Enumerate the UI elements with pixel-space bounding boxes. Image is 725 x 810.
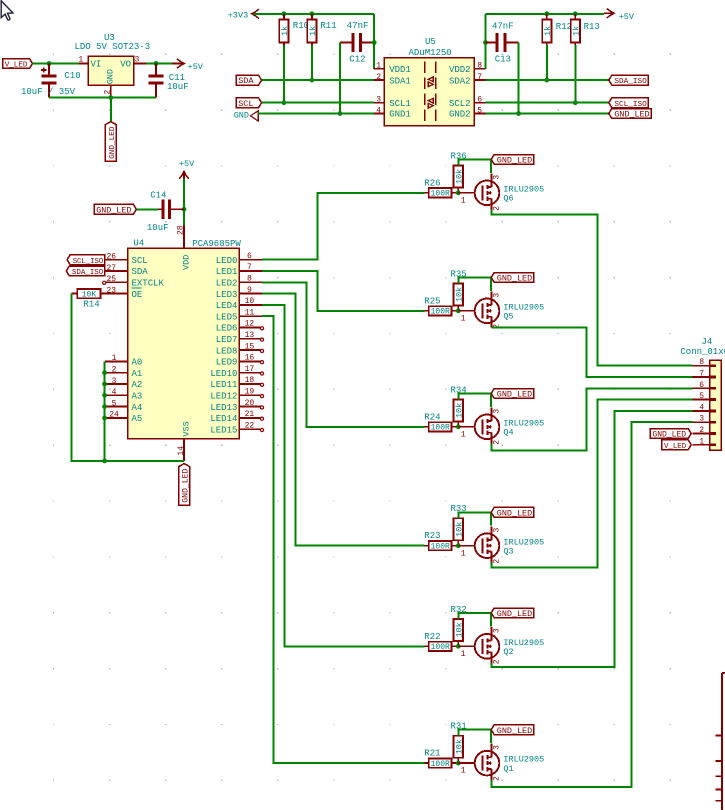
wire <box>458 613 491 626</box>
svg-text:LED11: LED11 <box>210 380 237 390</box>
wire <box>458 512 491 525</box>
junction <box>102 393 107 398</box>
pin 23 OE <box>105 286 142 299</box>
wire <box>262 316 424 763</box>
svg-text:5: 5 <box>699 392 704 401</box>
svg-text:2: 2 <box>492 559 501 564</box>
regulator U3 <box>75 33 151 98</box>
resistor R33 <box>451 504 467 544</box>
svg-text:SCL: SCL <box>238 99 253 109</box>
svg-text:SDA: SDA <box>132 267 149 277</box>
wire <box>33 63 80 65</box>
svg-text:+5V: +5V <box>619 12 635 22</box>
svg-text:24: 24 <box>109 411 119 420</box>
svg-text:SDA2: SDA2 <box>449 76 471 86</box>
svg-text:1: 1 <box>461 767 466 776</box>
svg-text:8: 8 <box>699 358 704 367</box>
wire <box>486 113 609 115</box>
svg-text:100R: 100R <box>431 308 450 317</box>
svg-text:R21: R21 <box>424 749 440 759</box>
svg-text:R12: R12 <box>556 22 572 32</box>
svg-text:14: 14 <box>177 446 186 456</box>
svg-text:3: 3 <box>492 409 501 414</box>
wire <box>262 305 424 646</box>
svg-text:LED5: LED5 <box>216 312 238 322</box>
junction <box>573 11 578 16</box>
wire <box>254 13 375 15</box>
svg-text:100R: 100R <box>431 643 450 652</box>
svg-text:28: 28 <box>176 225 185 235</box>
wire <box>183 179 185 226</box>
junction <box>544 11 549 16</box>
global label GND_LED <box>491 155 534 166</box>
svg-text:2: 2 <box>492 206 501 211</box>
capacitor C11 <box>148 64 188 98</box>
svg-text:10uF: 10uF <box>147 223 169 233</box>
svg-text:LED10: LED10 <box>210 369 237 379</box>
resistor R26 <box>424 178 458 198</box>
junction <box>108 95 113 100</box>
svg-text:3: 3 <box>492 745 501 750</box>
svg-text:GND_LED: GND_LED <box>652 431 686 440</box>
resistor R32 <box>451 605 467 645</box>
svg-text:3: 3 <box>699 415 704 424</box>
junction <box>372 40 377 45</box>
power +3V3 <box>228 9 259 20</box>
svg-text:5: 5 <box>112 399 117 408</box>
wire <box>262 294 424 546</box>
svg-text:SDA: SDA <box>238 76 254 86</box>
connector J4 <box>680 337 725 451</box>
pin 25 EXTCLK <box>103 275 165 288</box>
junction <box>516 111 521 116</box>
svg-text:SCL: SCL <box>132 256 148 266</box>
pin 3 <box>692 415 716 424</box>
svg-text:3: 3 <box>492 528 501 533</box>
svg-text:Q4: Q4 <box>503 428 513 438</box>
global label GND_LED <box>650 429 691 440</box>
svg-text:3: 3 <box>376 96 381 105</box>
mouse cursor <box>1 1 13 20</box>
wire <box>491 422 692 787</box>
wire <box>262 79 375 81</box>
svg-text:A4: A4 <box>132 403 143 413</box>
svg-text:2: 2 <box>699 426 704 435</box>
svg-text:J4: J4 <box>702 337 713 347</box>
svg-text:2: 2 <box>492 659 501 664</box>
svg-text:100R: 100R <box>431 424 450 433</box>
global label GND_LED <box>609 109 651 120</box>
resistor R12 <box>542 14 572 45</box>
svg-text:LED4: LED4 <box>216 301 238 311</box>
junction <box>544 78 549 83</box>
svg-text:10k: 10k <box>454 739 464 754</box>
svg-text:VSS: VSS <box>182 421 192 436</box>
pin 6 LED0 <box>216 252 262 266</box>
resistor R21 <box>424 749 458 769</box>
pin 1 A0 <box>105 354 142 367</box>
junction <box>573 100 578 105</box>
svg-text:3: 3 <box>112 377 117 386</box>
svg-text:GND_LED: GND_LED <box>109 126 117 159</box>
global label SCL_ISO <box>67 255 105 266</box>
pin 11 LED5 <box>216 308 262 322</box>
svg-text:2: 2 <box>376 73 381 82</box>
isolator U5 <box>374 37 485 126</box>
svg-text:1: 1 <box>376 62 381 71</box>
resistor R14 <box>71 289 105 310</box>
svg-text:GND_LED: GND_LED <box>497 274 532 284</box>
svg-text:R26: R26 <box>424 178 440 188</box>
wire <box>546 45 548 80</box>
pin 22 LED15 <box>210 421 263 435</box>
svg-text:6: 6 <box>699 381 704 390</box>
wire <box>518 43 520 114</box>
wire <box>486 79 609 81</box>
svg-text:C10: C10 <box>64 71 80 81</box>
svg-text:A1: A1 <box>132 369 143 379</box>
global label V_LED <box>3 59 33 70</box>
transistor Q4 <box>458 407 544 444</box>
svg-text:OE: OE <box>132 290 143 300</box>
junction <box>102 459 107 464</box>
pin 12 LED6 <box>216 320 264 334</box>
svg-text:27: 27 <box>106 264 116 273</box>
svg-text:10k: 10k <box>454 169 464 184</box>
pin 9 LED3 <box>216 286 262 300</box>
wire <box>262 102 375 104</box>
wire <box>49 97 156 99</box>
svg-text:U5: U5 <box>425 37 436 47</box>
svg-text:VDD: VDD <box>182 255 192 270</box>
svg-text:VDD2: VDD2 <box>449 65 471 75</box>
global label SDA_ISO <box>66 266 105 277</box>
pin 20 LED13 <box>210 399 263 413</box>
svg-text:Q1: Q1 <box>503 764 513 774</box>
svg-text:GND1: GND1 <box>389 110 411 120</box>
wire <box>458 393 491 406</box>
junction <box>483 40 488 45</box>
svg-text:VO: VO <box>120 60 131 70</box>
svg-text:8: 8 <box>477 62 482 71</box>
svg-text:47nF: 47nF <box>492 22 514 32</box>
svg-text:2: 2 <box>492 776 501 781</box>
junction <box>47 61 52 66</box>
svg-text:1: 1 <box>699 437 704 446</box>
svg-text:2: 2 <box>112 366 117 375</box>
connector (partial, right edge) <box>716 673 725 810</box>
svg-text:LED3: LED3 <box>216 290 238 300</box>
svg-text:EXTCLK: EXTCLK <box>132 279 165 289</box>
junction <box>456 190 461 195</box>
svg-text:4: 4 <box>699 403 704 412</box>
wire <box>491 411 692 667</box>
pin 7 LED1 <box>216 263 262 277</box>
svg-text:Conn_01x08: Conn_01x08 <box>680 347 725 357</box>
pin 18 LED11 <box>210 376 263 390</box>
svg-text:LED6: LED6 <box>216 324 238 334</box>
svg-text:SCL_ISO: SCL_ISO <box>73 258 104 266</box>
global label GND_LED <box>491 273 534 284</box>
power +5V <box>604 9 635 22</box>
pin 27 SDA <box>105 264 148 277</box>
junction <box>282 100 287 105</box>
svg-text:7: 7 <box>699 370 704 379</box>
svg-text:23: 23 <box>106 286 116 295</box>
svg-text:LED8: LED8 <box>216 346 238 356</box>
junction <box>456 644 461 649</box>
ic U4 <box>103 225 264 461</box>
svg-text:1: 1 <box>112 354 117 363</box>
svg-text:VDD1: VDD1 <box>389 65 411 75</box>
global label GND_LED <box>105 122 117 161</box>
pin 5 A4 <box>105 399 142 412</box>
wire <box>486 102 609 104</box>
svg-text:R14: R14 <box>83 300 99 310</box>
wire <box>262 193 424 260</box>
pin 1 <box>692 437 716 446</box>
svg-text:LED0: LED0 <box>216 256 238 266</box>
wire <box>458 730 491 743</box>
svg-text:10uF: 10uF <box>167 82 189 92</box>
svg-text:4: 4 <box>112 388 117 397</box>
wire <box>104 361 106 461</box>
svg-text:SCL1: SCL1 <box>389 99 411 109</box>
svg-text:GND_LED: GND_LED <box>497 390 532 400</box>
svg-text:1: 1 <box>461 549 466 558</box>
junction <box>182 207 187 212</box>
svg-text:10uF / 35V: 10uF / 35V <box>21 87 76 97</box>
svg-text:5: 5 <box>477 106 482 115</box>
pin 6 <box>692 381 716 390</box>
svg-text:A2: A2 <box>132 380 143 390</box>
wire <box>339 43 341 114</box>
svg-text:V_LED: V_LED <box>664 443 687 451</box>
svg-text:10k: 10k <box>454 622 464 637</box>
wire <box>491 210 692 366</box>
svg-text:+5V: +5V <box>188 62 204 72</box>
junction <box>102 382 107 387</box>
wire <box>283 45 285 103</box>
pin 24 A5 <box>105 411 142 424</box>
svg-text:VI: VI <box>91 60 102 70</box>
junction <box>456 424 461 429</box>
svg-text:C14: C14 <box>150 191 166 201</box>
svg-text:PCA9685PW: PCA9685PW <box>192 239 241 249</box>
wire <box>458 277 491 290</box>
svg-text:2: 2 <box>492 440 501 445</box>
svg-text:LED14: LED14 <box>210 414 237 424</box>
wire <box>491 388 692 450</box>
wire <box>486 13 605 15</box>
resistor R11 <box>307 14 336 45</box>
transistor Q2 <box>458 627 544 664</box>
pin 14 VSS <box>177 421 192 461</box>
svg-text:U4: U4 <box>133 239 144 249</box>
wire <box>491 328 692 378</box>
svg-text:A0: A0 <box>132 358 143 368</box>
svg-text:Q5: Q5 <box>503 312 513 322</box>
wire <box>373 14 375 69</box>
svg-text:100R: 100R <box>431 190 450 199</box>
global label V_LED <box>662 440 691 451</box>
svg-text:7: 7 <box>477 73 482 82</box>
svg-text:GND_LED: GND_LED <box>497 156 532 166</box>
pin 4 A3 <box>105 388 142 401</box>
wire <box>262 282 424 427</box>
pin 17 LED10 <box>210 365 263 379</box>
svg-text:3: 3 <box>492 293 501 298</box>
junction <box>338 111 343 116</box>
svg-text:GND_LED: GND_LED <box>497 508 532 518</box>
svg-text:100R: 100R <box>431 543 450 552</box>
resistor R13 <box>571 14 600 45</box>
svg-text:3: 3 <box>492 175 501 180</box>
svg-text:GND_LED: GND_LED <box>497 609 532 619</box>
svg-text:R24: R24 <box>424 412 440 422</box>
svg-text:10k: 10k <box>454 522 464 537</box>
svg-text:2: 2 <box>103 90 112 95</box>
global label SDA <box>236 75 262 86</box>
svg-text:LED7: LED7 <box>216 335 238 345</box>
global label SDA_ISO <box>609 75 649 86</box>
svg-text:4: 4 <box>376 106 381 115</box>
svg-text:+5V: +5V <box>179 159 195 169</box>
svg-text:47nF: 47nF <box>347 21 369 31</box>
svg-text:1: 1 <box>461 650 466 659</box>
resistor R36 <box>451 151 467 191</box>
resistor R34 <box>451 385 467 425</box>
pin 5 <box>692 392 716 401</box>
pin 8 <box>692 358 716 367</box>
svg-text:A5: A5 <box>132 414 143 424</box>
svg-text:6: 6 <box>477 96 482 105</box>
capacitor C12 <box>340 21 374 65</box>
svg-text:LED15: LED15 <box>210 425 237 435</box>
svg-text:Q6: Q6 <box>503 194 513 204</box>
svg-text:100R: 100R <box>431 760 450 769</box>
svg-text:LDO 5V SOT23-3: LDO 5V SOT23-3 <box>75 42 151 52</box>
svg-text:R25: R25 <box>424 296 440 306</box>
wire <box>574 45 576 103</box>
wire <box>258 113 374 115</box>
transistor Q3 <box>458 526 544 563</box>
power GND <box>234 110 259 121</box>
svg-text:GND: GND <box>234 110 249 120</box>
junction <box>102 416 107 421</box>
pin 21 LED14 <box>210 410 263 424</box>
wire <box>458 159 491 172</box>
resistor R22 <box>424 632 458 652</box>
svg-text:Q3: Q3 <box>503 547 513 557</box>
junction <box>310 78 315 83</box>
svg-text:LED9: LED9 <box>216 358 238 368</box>
power +5V <box>172 59 204 72</box>
svg-text:GND_LED: GND_LED <box>96 205 131 215</box>
svg-text:10k: 10k <box>454 403 464 418</box>
pin 26 SCL <box>105 253 148 266</box>
svg-text:V_LED: V_LED <box>5 62 28 70</box>
svg-text:A3: A3 <box>132 392 143 402</box>
wire <box>136 208 158 210</box>
pin 8 LED2 <box>216 275 262 289</box>
transistor Q6 <box>458 173 544 210</box>
svg-text:R11: R11 <box>320 21 336 31</box>
pin 7 <box>692 370 716 379</box>
wire <box>146 63 172 65</box>
wire <box>110 98 112 122</box>
svg-text:SDA_ISO: SDA_ISO <box>614 78 647 86</box>
wire <box>71 294 184 461</box>
svg-text:R22: R22 <box>424 632 440 642</box>
svg-text:GND_LED: GND_LED <box>497 726 532 736</box>
junction <box>102 370 107 375</box>
svg-text:26: 26 <box>106 253 116 262</box>
svg-text:1k: 1k <box>280 26 290 36</box>
svg-text:ADuM1250: ADuM1250 <box>409 48 452 58</box>
svg-text:LED1: LED1 <box>216 267 238 277</box>
svg-text:SDA1: SDA1 <box>389 76 411 86</box>
svg-text:3: 3 <box>134 55 139 64</box>
svg-text:GND2: GND2 <box>449 110 471 120</box>
wire <box>491 400 692 568</box>
power +5V <box>179 159 195 179</box>
global label GND_LED <box>491 507 534 518</box>
pin 16 LED9 <box>216 354 264 368</box>
global label GND_LED <box>179 464 191 505</box>
svg-text:LED13: LED13 <box>210 403 237 413</box>
resistor R25 <box>424 296 458 316</box>
resistor R23 <box>424 531 458 551</box>
svg-text:C13: C13 <box>495 55 511 65</box>
transistor Q1 <box>458 744 544 781</box>
transistor Q5 <box>458 291 544 328</box>
wire <box>485 14 487 69</box>
global label GND_LED <box>94 204 136 215</box>
svg-text:SCL_ISO: SCL_ISO <box>614 101 647 109</box>
svg-text:10k: 10k <box>454 287 464 302</box>
svg-text:1: 1 <box>461 430 466 439</box>
capacitor C14 <box>147 191 184 234</box>
svg-text:LED2: LED2 <box>216 279 238 289</box>
capacitor C10 <box>21 64 81 98</box>
svg-text:R13: R13 <box>584 22 600 32</box>
global label SCL_ISO <box>609 98 649 109</box>
global label GND_LED <box>491 389 534 400</box>
pin 2 A1 <box>105 366 142 379</box>
svg-text:1k: 1k <box>543 26 553 36</box>
svg-text:1: 1 <box>461 196 466 205</box>
pin 2 <box>692 426 716 435</box>
svg-text:Q2: Q2 <box>503 647 513 657</box>
capacitor C13 <box>486 22 519 65</box>
svg-text:1k: 1k <box>308 26 318 36</box>
svg-text:GND: GND <box>106 69 116 84</box>
svg-text:3: 3 <box>492 628 501 633</box>
resistor R35 <box>451 269 467 309</box>
svg-text:1: 1 <box>461 314 466 323</box>
svg-text:LED12: LED12 <box>210 392 237 402</box>
junction <box>456 308 461 313</box>
svg-text:1k: 1k <box>571 26 581 36</box>
junction <box>102 404 107 409</box>
junction <box>154 61 159 66</box>
pin 4 <box>692 403 716 412</box>
svg-text:1: 1 <box>78 55 83 64</box>
svg-text:GND_LED: GND_LED <box>614 110 649 120</box>
pin 15 LED8 <box>216 342 264 356</box>
svg-text:25: 25 <box>106 275 116 284</box>
